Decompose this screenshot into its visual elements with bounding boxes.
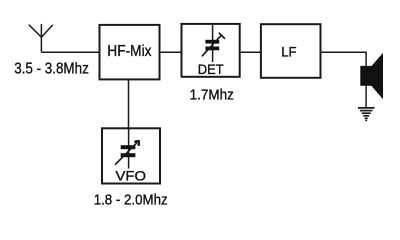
wire LF to speaker (321, 52, 366, 108)
svg-text:HF-Mix: HF-Mix (107, 43, 151, 60)
wire HF-Mix to DET (160, 51, 181, 53)
wire HF-Mix to VFO (128, 80, 130, 130)
svg-text:DET: DET (198, 62, 225, 77)
block VFO (102, 128, 160, 183)
svg-text:1.7Mhz: 1.7Mhz (190, 88, 234, 104)
trimmer capacitor in DET (202, 24, 225, 62)
wire DET to LF (240, 51, 260, 53)
svg-text:1.8 - 2.0Mhz: 1.8 - 2.0Mhz (94, 191, 168, 208)
antenna (29, 24, 53, 52)
ground (358, 108, 375, 118)
variable capacitor in VFO (115, 128, 139, 168)
svg-text:3.5 - 3.8Mhz: 3.5 - 3.8Mhz (14, 61, 89, 78)
speaker (360, 53, 383, 99)
wire antenna to HF-Mix (41, 51, 99, 53)
block LF (261, 24, 321, 78)
svg-text:LF: LF (281, 44, 296, 60)
block DET (182, 24, 240, 77)
svg-text:VFO: VFO (116, 169, 147, 184)
block HF-Mix (100, 25, 160, 80)
